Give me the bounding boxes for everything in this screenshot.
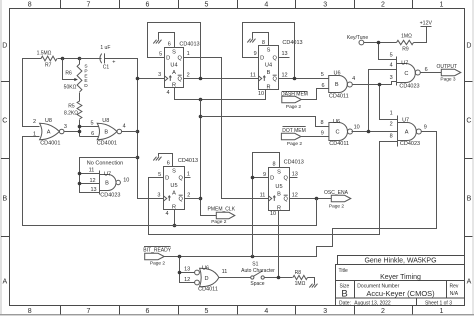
svg-text:Title: Title [339,268,348,274]
wire: U7C out to OUTPUT [421,72,442,74]
wire: U5B Q stub pin 13 [290,177,298,179]
svg-text:Page 2: Page 2 [150,260,166,266]
resistor R7 [37,51,57,69]
svg-text:5: 5 [205,1,209,8]
svg-text:DASH MEM: DASH MEM [281,92,308,98]
svg-text:4: 4 [264,1,268,8]
wire: U5A Q stub pin 1 [185,177,191,179]
svg-text:6: 6 [145,308,149,315]
svg-text:Rev: Rev [450,284,459,290]
3-input nand U7C (CD4023) [390,53,428,90]
svg-text:D: D [2,43,7,50]
resistor R8 [293,270,308,287]
svg-text:2: 2 [381,1,385,8]
svg-text:D: D [84,83,88,89]
svg-text:OUTPUT: OUTPUT [437,64,458,70]
ground (U5A set pin 6) [153,154,172,167]
ground (R8) [308,278,318,288]
svg-text:8: 8 [272,161,275,167]
title block [336,256,465,307]
svg-text:8: 8 [28,308,32,315]
svg-text:U7: U7 [402,118,409,124]
svg-text:PMEM_CLK: PMEM_CLK [208,206,236,212]
svg-text:CD4023: CD4023 [399,83,419,89]
svg-text:D: D [204,276,208,282]
svg-text:R: R [172,82,176,88]
3-input nand U7B (CD4023) [100,171,130,199]
svg-text:6: 6 [167,161,170,167]
wire: U5A Qbar to PMEM_CLK vertical [185,198,201,200]
svg-text:Q: Q [284,176,289,182]
svg-text:8: 8 [390,133,393,139]
page connector BIT_READY [143,247,171,267]
svg-text:12: 12 [89,178,95,184]
svg-text:A: A [172,70,176,76]
wire: Key/Tune node to R9 and U7C pin 5 [364,41,397,60]
wire: U8A out to U8B inputs / R5 bottom [65,125,99,137]
svg-text:8.2KΩ: 8.2KΩ [64,111,78,117]
svg-text:50KΩ: 50KΩ [64,85,77,91]
svg-text:4: 4 [352,76,355,82]
svg-text:6: 6 [91,131,94,137]
switch S1 Auto Character / Space [241,261,275,287]
svg-text:U8: U8 [102,118,109,124]
wire: U4B feedback Qbar to D [243,23,329,81]
svg-text:R7: R7 [45,63,52,69]
svg-text:C1: C1 [103,64,110,70]
net: No Connection tie [78,158,138,193]
svg-text:2: 2 [187,192,190,198]
svg-text:B: B [467,196,472,203]
wire: U4A/U4B reset rail [175,88,266,102]
svg-text:U6: U6 [202,265,209,271]
svg-text:3: 3 [157,192,160,198]
svg-text:Page 2: Page 2 [329,204,345,210]
svg-text:A: A [467,279,472,286]
svg-text:U6: U6 [333,119,340,125]
svg-text:8: 8 [28,1,32,8]
svg-text:A: A [2,279,7,286]
capacitor C1 [80,45,119,70]
svg-text:10: 10 [270,211,276,217]
svg-text:U4: U4 [170,63,177,69]
wire: U6D out to S1 [219,277,251,279]
svg-text:Accu-Keyer (CMOS): Accu-Keyer (CMOS) [366,289,435,298]
svg-text:11: 11 [260,193,266,199]
svg-text:Key/Tune: Key/Tune [347,35,368,41]
svg-text:1: 1 [187,171,190,177]
svg-text:B: B [105,181,109,187]
ground (U4B set pin 8) [247,33,268,46]
svg-text:11: 11 [222,269,228,275]
svg-text:Q: Q [179,197,184,203]
svg-text:5: 5 [158,172,161,178]
svg-text:Page 3: Page 3 [440,77,456,83]
wire: U5B reset to S1 [278,211,280,278]
svg-text:5: 5 [390,53,393,59]
svg-text:13: 13 [90,187,96,193]
svg-text:Page 2: Page 2 [211,219,227,225]
svg-text:U8: U8 [45,118,52,124]
svg-text:D: D [260,56,264,62]
svg-text:B: B [341,288,347,299]
wire: U4B Q stub pin 13 [279,57,290,59]
svg-text:U7: U7 [104,171,111,177]
svg-text:13: 13 [292,171,298,177]
svg-text:U7: U7 [401,61,408,67]
wire: BIT_READY to U6D inputs [178,257,195,283]
svg-text:5: 5 [90,121,93,127]
wire: U6C out to U7A pin 2 / U7C pin 4 [352,70,398,134]
svg-text:3: 3 [158,72,161,78]
svg-text:2: 2 [187,72,190,78]
svg-text:1: 1 [440,308,444,315]
svg-text:10: 10 [123,178,129,184]
svg-text:B: B [277,192,281,198]
svg-text:5: 5 [321,72,324,78]
flip-flop U4A (CD4013) [158,41,199,96]
svg-text:+12V: +12V [420,20,433,26]
wire: U4A feedback Qbar to D and U4B clock [148,23,259,81]
svg-text:CD4013: CD4013 [284,159,304,165]
wire: DASH MEM to U6B input 6 [302,89,329,100]
nand gate U6B (CD4011) [321,70,355,99]
svg-text:4: 4 [166,90,169,96]
svg-text:A: A [405,130,409,136]
svg-text:Page 2: Page 2 [287,141,303,147]
nand gate U6D (CD4011, negated-input OR) [184,265,227,292]
svg-text:R6: R6 [65,71,72,77]
svg-text:9: 9 [254,51,257,57]
wire: U6B out to U7C pin 3 / U7A pin 1 [353,82,398,120]
svg-text:13: 13 [184,267,190,273]
svg-text:S: S [277,170,281,176]
svg-text:7: 7 [86,1,90,8]
svg-text:6: 6 [321,83,324,89]
svg-text:5: 5 [159,52,162,58]
page connector PMEM_CLK [208,206,236,225]
svg-text:Auto Character: Auto Character [241,268,275,274]
wire: U4A Q to U5B clock [184,58,269,199]
page connector DASH MEM [281,92,308,111]
svg-text:5: 5 [205,308,209,315]
nand gate U6C (CD4011) [320,119,359,147]
svg-text:2: 2 [390,122,393,128]
svg-text:C: C [466,118,471,125]
svg-text:U5: U5 [170,183,177,189]
svg-text:S: S [172,50,176,56]
svg-text:R: R [266,84,270,90]
svg-text:12: 12 [282,72,288,78]
svg-text:C: C [404,71,408,77]
svg-text:U5: U5 [275,184,282,190]
svg-text:Date:: Date: [339,300,351,306]
svg-text:9: 9 [424,124,427,130]
svg-text:Q: Q [284,197,289,203]
resistor R9 [397,34,414,53]
svg-text:7: 7 [86,308,90,315]
wire: DOT MEM to U6C input 9 [301,136,329,138]
svg-text:U6: U6 [333,70,340,76]
svg-text:Keyer Timing: Keyer Timing [380,274,421,281]
flip-flop U4B (CD4013) [250,40,302,97]
svg-text:B: B [104,130,108,136]
wire: U5B set/D tie to BIT_READY [251,153,280,257]
svg-text:Sheet 1 of 3: Sheet 1 of 3 [425,300,452,306]
svg-text:CD4013: CD4013 [178,158,198,164]
svg-text:10: 10 [258,91,264,97]
svg-text:1: 1 [187,51,190,57]
ground (U4A set pin 6) [153,33,174,48]
wire: U7A out to BIT_READY [165,132,437,259]
svg-text:1MΩ: 1MΩ [401,34,412,40]
svg-text:11: 11 [250,72,256,78]
nor gate U8A (CD4001) [33,118,67,146]
flip-flop U5B (CD4013) [260,159,304,217]
wire: U8B output to clock node [122,131,138,133]
3-input nand U7A (CD4023) [390,111,427,147]
wire: R7 feedback to U8A input 2 [23,59,42,127]
input terminal Key/Tune [347,35,368,45]
svg-text:CD4011: CD4011 [198,287,218,293]
svg-text:OSC_ENA: OSC_ENA [324,190,349,196]
svg-text:3: 3 [323,1,327,8]
svg-text:1: 1 [390,111,393,117]
svg-text:CD4023: CD4023 [100,193,120,199]
svg-text:R5: R5 [68,103,75,109]
svg-text:D: D [165,176,169,182]
svg-text:13: 13 [282,51,288,57]
svg-text:D: D [166,56,170,62]
svg-text:R9: R9 [402,46,409,52]
svg-text:No Connection: No Connection [87,161,123,167]
svg-text:1: 1 [440,1,444,8]
wire: U5B Qbar to OSC_ENA [290,197,332,201]
wire: OSC_ENA rail to U8A input 1 [23,137,317,226]
svg-text:R: R [277,205,281,211]
svg-text:2: 2 [381,308,385,315]
svg-text:Q: Q [178,77,183,83]
flip-flop U5A (CD4013) [157,158,198,217]
svg-text:4: 4 [390,63,393,69]
svg-text:11: 11 [89,168,95,174]
svg-text:B: B [2,196,7,203]
svg-text:CD4001: CD4001 [97,140,117,146]
wire: R7 to C1 node [58,57,102,61]
svg-text:U4: U4 [265,63,272,69]
svg-text:3: 3 [64,124,67,130]
svg-text:B: B [267,70,271,76]
svg-text:Q: Q [273,77,278,83]
svg-text:3: 3 [390,75,393,81]
svg-text:Space: Space [250,281,264,287]
nor gate U8B (CD4001) [90,118,125,146]
svg-text:10: 10 [354,124,360,130]
svg-text:Q: Q [178,56,183,62]
svg-text:CD4013: CD4013 [282,40,302,46]
svg-text:4: 4 [264,308,268,315]
svg-text:12: 12 [292,193,298,199]
svg-text:9: 9 [321,130,324,136]
svg-text:D: D [466,43,471,50]
svg-text:S: S [172,169,176,175]
svg-text:August 13, 2022: August 13, 2022 [354,300,391,306]
page connector DOT MEM [281,127,305,147]
wire: U7A pin 8 to U5A D [149,142,398,235]
svg-text:Q: Q [179,176,184,182]
svg-text:1MΩ: 1MΩ [295,281,306,287]
wire: PMEM_CLK net vertical [199,100,217,216]
svg-text:2: 2 [33,119,36,125]
svg-text:S: S [267,48,271,54]
svg-text:R8: R8 [295,270,302,276]
wire: reset rail to U6C input 8 [201,117,329,127]
svg-text:C: C [335,130,339,136]
svg-text:CD4013: CD4013 [179,41,199,47]
svg-text:1 uF: 1 uF [100,45,110,51]
svg-text:DOT MEM: DOT MEM [282,128,306,134]
svg-text:A: A [172,191,176,197]
svg-text:Page 2: Page 2 [286,104,302,110]
power +12V [414,20,433,42]
svg-text:Gene Hinkle, WA5KPG: Gene Hinkle, WA5KPG [364,258,436,265]
svg-text:CD4001: CD4001 [40,140,60,146]
potentiometer R6 SPEED [63,59,89,102]
svg-text:N/A: N/A [450,291,459,297]
svg-text:R: R [172,204,176,210]
page connector OSC_ENA [324,190,351,210]
svg-text:6: 6 [145,1,149,8]
svg-text:8: 8 [320,120,323,126]
page connector OUTPUT [437,64,461,83]
svg-text:4: 4 [123,123,126,129]
svg-text:3: 3 [323,308,327,315]
svg-text:B: B [335,82,339,88]
svg-text:8: 8 [262,40,265,46]
svg-text:Q: Q [273,56,278,62]
svg-text:BIT_READY: BIT_READY [143,248,171,254]
resistor R5 [64,101,82,127]
svg-text:CD4023: CD4023 [400,141,420,147]
svg-text:C: C [2,118,7,125]
svg-text:1.5MΩ: 1.5MΩ [37,51,52,57]
wire: U5A reset to OSC_ENA rail [173,210,177,228]
svg-text:S1: S1 [252,261,258,267]
svg-text:CD4011: CD4011 [329,141,349,147]
wire: S1 to R8 [265,276,293,280]
svg-text:D: D [270,176,274,182]
svg-text:4: 4 [165,211,168,217]
wire: clock node (C1 / U4A clk / U8B out / U5A clk) [119,59,165,199]
svg-text:A: A [47,130,51,136]
svg-text:+: + [112,60,115,66]
svg-text:6: 6 [168,42,171,48]
svg-text:CD4011: CD4011 [329,94,349,100]
svg-text:12: 12 [184,277,190,283]
